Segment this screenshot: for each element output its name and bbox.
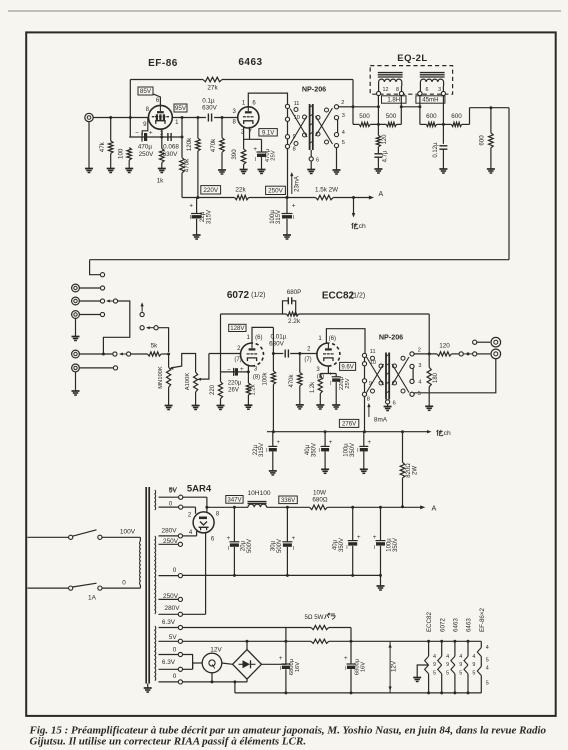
svg-text:220V: 220V <box>203 187 219 194</box>
terminal 5 <box>334 144 338 148</box>
resistor 470k grid leak 6463 <box>221 118 223 138</box>
svg-text:11: 11 <box>294 101 300 107</box>
svg-text:(8): (8) <box>253 375 260 381</box>
terminal 11 <box>285 104 289 108</box>
svg-text:0: 0 <box>122 580 126 587</box>
resistor 470k ECC82 grid <box>299 354 301 373</box>
svg-text:4: 4 <box>433 654 436 660</box>
wire output return <box>414 359 496 393</box>
T2 left winding <box>371 356 375 360</box>
svg-text:I: I <box>330 381 331 387</box>
svg-text:120: 120 <box>439 343 450 350</box>
svg-text:5: 5 <box>459 671 462 677</box>
wire input line <box>93 117 148 119</box>
tap 250V upper <box>159 543 179 545</box>
svg-text:9: 9 <box>459 662 462 668</box>
svg-text:1.8H: 1.8H <box>387 97 400 104</box>
output mid dot <box>467 352 470 355</box>
resistor 390 cathode <box>241 149 246 165</box>
ground T1 pin 6 <box>307 169 315 171</box>
resistor 220 NFB leg <box>220 372 222 382</box>
svg-text:95V: 95V <box>175 105 187 112</box>
capacitor 40u 350V psu <box>352 507 354 540</box>
svg-text:30µ: 30µ <box>270 540 276 551</box>
wire cathode pin3 down <box>161 129 163 148</box>
svg-text:I: I <box>228 546 229 552</box>
svg-text:0.01µ: 0.01µ <box>271 333 287 340</box>
svg-text:6072: 6072 <box>227 290 250 301</box>
svg-text:1.5k 2W: 1.5k 2W <box>315 187 338 194</box>
page top edge line <box>8 10 561 12</box>
resistor 5ohm a <box>311 625 329 629</box>
wire cap to 6463 grid <box>214 117 238 119</box>
ground 220u 25V <box>332 404 340 406</box>
ground 100 ohm <box>125 168 133 170</box>
svg-text:9: 9 <box>446 662 449 668</box>
tube 6072 V3 <box>241 343 253 366</box>
wire pin 9 shield jog <box>142 118 148 136</box>
wire 5V main rail <box>183 640 312 642</box>
ground 4.7u <box>374 168 382 170</box>
switch S1 upper <box>69 535 73 539</box>
T1 right winding <box>325 108 329 112</box>
wire 6072 plate loop <box>252 327 273 343</box>
inductor 1.8H winding <box>379 79 402 86</box>
ground 100u s2 <box>360 468 368 470</box>
svg-text:4: 4 <box>486 645 489 651</box>
svg-text:47k: 47k <box>99 141 106 152</box>
svg-text:315V: 315V <box>275 209 282 224</box>
wire terminal5 to ground <box>336 148 338 170</box>
capacitor 22u 315V <box>196 198 198 214</box>
resistor 22k rail <box>235 195 249 200</box>
wire monitor to junction <box>158 328 168 352</box>
label other-ch <box>351 223 353 229</box>
wire tape out <box>477 341 490 343</box>
contact jack1 <box>100 286 104 290</box>
svg-text:250V: 250V <box>268 188 284 195</box>
svg-text:+: + <box>279 655 283 662</box>
svg-text:1k: 1k <box>157 178 165 185</box>
svg-text:5: 5 <box>446 671 449 677</box>
wire ECC82 plate loop <box>326 329 365 354</box>
svg-text:500V: 500V <box>277 539 283 553</box>
wire terminal6 leg <box>419 96 421 125</box>
bridge diode symbol <box>239 663 243 665</box>
svg-text:+: + <box>329 439 333 446</box>
wire plate row EF-86 <box>172 117 206 119</box>
terminal 10 T2 <box>362 362 366 366</box>
svg-text:3: 3 <box>342 113 345 119</box>
svg-text:EF-86×2: EF-86×2 <box>479 608 486 632</box>
tap 280V lower <box>159 613 179 615</box>
terminal 4 <box>334 133 338 137</box>
wire 6463 plate to transformer <box>248 93 287 107</box>
contact jack5 <box>113 366 117 370</box>
tap 6.3V upper <box>159 627 179 629</box>
wire 5V tap to pin8 <box>179 495 183 499</box>
svg-text:ECC82: ECC82 <box>322 290 355 301</box>
svg-text:5: 5 <box>486 680 489 686</box>
ground psu rail <box>377 585 385 587</box>
svg-text:(1/2): (1/2) <box>251 292 265 299</box>
capacitor 22u 315V s2 <box>272 432 274 447</box>
svg-text:5V: 5V <box>169 634 178 641</box>
ground core <box>144 687 152 689</box>
output contact a <box>459 352 463 356</box>
svg-text:I: I <box>280 666 281 672</box>
ground heater <box>413 677 421 679</box>
tap 0 heater a <box>159 654 179 656</box>
svg-text:Gijutsu. Il utilise un correct: Gijutsu. Il utilise un correcteur RIAA p… <box>30 736 307 748</box>
wire 6.3V lower row <box>183 668 193 670</box>
svg-text:680Ω: 680Ω <box>312 497 328 504</box>
wire lamp left stub <box>192 662 194 669</box>
transformer T1 left rail <box>287 104 289 150</box>
svg-text:4: 4 <box>472 654 475 660</box>
tube 5AR4 <box>193 512 214 533</box>
T2 left rail <box>364 353 366 396</box>
capacitor 0.01u 630V <box>284 350 286 358</box>
wire PSU B+ start <box>207 506 226 508</box>
wire cathode row ECC82 <box>320 373 336 375</box>
terminal 4 T2 <box>410 379 414 383</box>
svg-text:26V: 26V <box>228 388 239 394</box>
T1 core <box>309 104 311 150</box>
svg-text:+: + <box>357 534 361 541</box>
wire EQ row2 <box>420 123 426 125</box>
resistor 500 a <box>359 122 370 126</box>
svg-text:5V: 5V <box>169 488 178 495</box>
svg-text:I: I <box>357 448 358 454</box>
svg-text:120: 120 <box>382 134 388 145</box>
diode bridge <box>233 650 262 680</box>
switch S1 lower / fuse 1A <box>69 586 73 590</box>
svg-text:16V: 16V <box>360 662 366 672</box>
wire terminal 8 down to rail with 23mA <box>287 149 289 198</box>
svg-text:NP-206: NP-206 <box>302 85 326 94</box>
voltage box 85V <box>138 87 153 95</box>
wire jack4 row <box>79 353 112 355</box>
svg-text:+: + <box>292 535 296 542</box>
wire to 5k <box>131 353 148 355</box>
T2 core <box>385 353 387 400</box>
svg-text:100µ: 100µ <box>344 443 350 457</box>
svg-text:6: 6 <box>426 87 429 93</box>
svg-text:5: 5 <box>433 671 436 677</box>
wire jumper T2 3-4 <box>412 368 414 379</box>
wire jack3 <box>79 314 100 316</box>
ground 470k ECC82 <box>296 404 304 406</box>
svg-text:40µ: 40µ <box>333 539 339 550</box>
capacitor 0.068 630V <box>167 133 169 141</box>
selector wiper 2 <box>113 299 117 303</box>
svg-text:1A: 1A <box>88 595 97 602</box>
svg-text:180: 180 <box>433 372 439 383</box>
arrow 23mA <box>291 174 293 194</box>
svg-text:5Ω 5W: 5Ω 5W <box>304 614 323 621</box>
tube ECC82 V4 <box>317 343 329 366</box>
terminal 9 <box>285 135 289 139</box>
heater ECC82 <box>428 641 430 656</box>
choke 10H100 <box>248 501 267 503</box>
svg-text:100µ: 100µ <box>387 538 393 552</box>
wire cathode row EF-86 <box>129 136 182 138</box>
capacitor 100u 350V s2 <box>363 432 365 447</box>
label other-ch 2 <box>436 430 438 436</box>
wire 276V rail <box>267 431 428 433</box>
wire return line to selector <box>90 259 509 261</box>
contact 4a <box>113 352 117 356</box>
resistor 180 shunt <box>428 354 430 367</box>
svg-text:0.12µ: 0.12µ <box>433 142 439 158</box>
svg-text:9: 9 <box>433 662 436 668</box>
svg-text:100V: 100V <box>120 529 136 536</box>
resistor 680 10W <box>310 505 328 510</box>
svg-text:630V: 630V <box>269 341 285 348</box>
resistor 120 eq <box>376 135 380 146</box>
svg-text:+: + <box>329 370 333 377</box>
terminal 6 T2 <box>387 399 389 402</box>
wire jack ground lead <box>88 122 90 169</box>
tape out contact <box>473 340 477 344</box>
svg-text:336V: 336V <box>281 497 296 504</box>
tap 0 HT <box>159 575 179 577</box>
svg-text:5k: 5k <box>151 343 159 350</box>
resistor 100k <box>271 371 276 384</box>
ground phono jacks <box>72 336 80 338</box>
NFB takeoff vertical <box>428 314 430 354</box>
svg-text:500: 500 <box>359 113 370 120</box>
svg-text:MN100K: MN100K <box>158 366 164 389</box>
secondary 5V winding (top) <box>154 490 157 510</box>
wire grid line to 6072 <box>209 353 241 355</box>
lamp 12V pilot <box>193 662 203 664</box>
svg-text:4.7µ: 4.7µ <box>383 150 389 162</box>
wire 5k to pot <box>161 353 169 355</box>
svg-text:8mA: 8mA <box>374 417 388 424</box>
wire terminal12 leg <box>377 96 379 136</box>
svg-text:350V: 350V <box>311 443 317 457</box>
input jack J1 <box>85 113 93 121</box>
svg-text:(1/2): (1/2) <box>351 293 365 300</box>
svg-text:280V: 280V <box>162 528 178 535</box>
svg-text:1.2k: 1.2k <box>251 383 257 395</box>
terminal 6 eq <box>419 86 421 91</box>
svg-text:0: 0 <box>173 646 177 653</box>
svg-text:9.6V: 9.6V <box>341 364 354 371</box>
svg-text:I: I <box>293 546 294 552</box>
svg-text:45mH: 45mH <box>422 97 438 104</box>
svg-text:470k: 470k <box>289 373 295 387</box>
wire wiper2 to lower row <box>103 301 129 354</box>
terminal 8 eq <box>401 86 403 91</box>
wire screen to 85V note <box>153 94 161 106</box>
aux jack 4 <box>72 350 80 358</box>
wire minus rail <box>235 692 481 694</box>
svg-text:4: 4 <box>486 666 489 672</box>
svg-text:630V: 630V <box>202 105 218 112</box>
ground 0.12u <box>439 168 447 170</box>
capacitor 680P loop <box>283 301 289 314</box>
svg-text:9: 9 <box>472 662 475 668</box>
svg-text:27k: 27k <box>207 85 218 92</box>
phono jack 2 <box>72 297 80 305</box>
svg-text:12V: 12V <box>390 660 397 672</box>
svg-text:+: + <box>189 203 193 210</box>
inductor 45mH winding <box>420 79 443 86</box>
EQ-2L dashed box <box>370 66 452 95</box>
svg-text:2: 2 <box>341 100 344 106</box>
svg-text:600: 600 <box>426 113 437 120</box>
ground 1k <box>158 168 166 170</box>
svg-text:16V: 16V <box>295 662 301 672</box>
svg-text:470k: 470k <box>184 158 191 172</box>
ground lower jacks <box>72 390 80 392</box>
wire choke to 336V <box>267 506 310 508</box>
wire bridge bottom stub <box>246 679 248 682</box>
heater 6463 a <box>454 641 456 656</box>
wire T2 output row <box>414 353 437 355</box>
wire psu ground stub <box>380 575 382 586</box>
capacitor 220u 25V ECC82 <box>335 374 337 377</box>
contact circle eq-return <box>100 273 104 277</box>
svg-text:680P: 680P <box>287 289 301 296</box>
svg-text:5: 5 <box>472 671 475 677</box>
resistor 120k plate load <box>197 118 199 139</box>
tap 0 heater b <box>159 681 179 683</box>
svg-text:4: 4 <box>418 379 421 385</box>
secondary HT winding <box>154 536 157 614</box>
wire interstage row <box>273 353 283 355</box>
svg-text:40µ: 40µ <box>305 444 311 455</box>
svg-text:ECC82: ECC82 <box>426 611 433 632</box>
voltage box 9.1V <box>259 129 277 136</box>
svg-text:6463: 6463 <box>453 618 460 632</box>
ground 220 <box>217 405 225 407</box>
svg-text:500: 500 <box>386 113 397 120</box>
terminal 3 <box>334 116 338 120</box>
contact jack3 <box>100 312 104 316</box>
phono jack 1 <box>72 284 80 292</box>
svg-text:10H100: 10H100 <box>247 490 270 497</box>
svg-text:+: + <box>149 130 153 137</box>
tap 0-a wire <box>159 506 179 508</box>
svg-text:5: 5 <box>418 391 421 397</box>
svg-text:250V: 250V <box>163 593 179 600</box>
resistor 2.2k <box>287 312 299 316</box>
primary winding <box>139 541 142 585</box>
tap 5V-a wire <box>159 496 179 498</box>
wire 6072 cathode <box>247 365 249 383</box>
svg-text:A: A <box>432 504 437 513</box>
svg-text:2W: 2W <box>412 466 418 475</box>
wire 0-tap jog <box>183 655 193 670</box>
svg-text:A: A <box>379 191 384 198</box>
svg-text:NP-206: NP-206 <box>379 333 403 342</box>
core ground stub <box>147 684 149 689</box>
terminal 6 T1 <box>310 150 312 157</box>
capacitor 470u 250V cathode <box>141 133 143 142</box>
tape pole contact <box>140 312 144 316</box>
contact jack2 <box>100 299 104 303</box>
voltage box 347V <box>226 496 243 504</box>
wire pin6 to ground <box>310 161 312 170</box>
svg-text:8: 8 <box>367 397 370 403</box>
svg-text:22µ: 22µ <box>253 444 259 455</box>
svg-text:470k: 470k <box>210 138 217 152</box>
ground MN100K <box>165 405 173 407</box>
capacitor 6800u 16V b <box>350 641 352 664</box>
tap 250V lower <box>159 598 179 600</box>
terminal 2 T2 <box>410 352 414 356</box>
svg-text:4: 4 <box>446 654 449 660</box>
resistor 120 output <box>437 352 452 356</box>
svg-text:A100K: A100K <box>185 373 191 391</box>
voltage box 250V <box>266 186 286 194</box>
wire 0 tap to pin2 <box>179 505 183 509</box>
resistor 1.2k 6072 <box>246 383 250 395</box>
svg-text:−: − <box>135 130 139 137</box>
svg-text:315V: 315V <box>259 443 265 457</box>
potentiometer A100K <box>194 372 198 392</box>
monitor contact a <box>140 326 144 330</box>
svg-text:ch: ch <box>444 430 451 437</box>
svg-text:1.2k: 1.2k <box>310 381 316 393</box>
svg-text:10W: 10W <box>313 490 326 497</box>
svg-text:+: + <box>367 439 371 446</box>
resistor 5k <box>148 352 162 356</box>
wire jacks ground lead <box>75 318 77 336</box>
wire cap to ECC82 grid <box>290 353 317 355</box>
phono jack 3 <box>72 311 80 319</box>
svg-text:5: 5 <box>486 657 489 663</box>
ground 600 shunt <box>487 168 495 170</box>
ground input jack <box>85 168 93 170</box>
svg-text:0: 0 <box>173 567 177 574</box>
resistor 27k NFB <box>203 77 222 82</box>
svg-text:500V: 500V <box>247 539 253 553</box>
wire plate-load vertical 100k <box>272 327 274 371</box>
voltage box 128V <box>229 324 246 331</box>
tube 6463 V2 <box>238 107 259 128</box>
svg-text:315V: 315V <box>205 209 212 224</box>
svg-text:9.1V: 9.1V <box>262 131 274 137</box>
box 45mH <box>416 96 445 103</box>
capacitor 20u 500V <box>233 507 235 542</box>
wire 120 to switch <box>452 353 460 355</box>
svg-text:6.3V: 6.3V <box>162 659 176 666</box>
aux jack 5 <box>72 364 80 372</box>
wire under 347V <box>226 506 248 508</box>
svg-text:25V: 25V <box>345 378 351 389</box>
svg-text:I: I <box>345 666 346 672</box>
wire lower jacks ground <box>75 372 77 391</box>
svg-text:128V: 128V <box>230 325 245 332</box>
svg-text:470µ: 470µ <box>138 144 153 151</box>
ground 470k grid leak <box>218 169 226 171</box>
wire EQ row1 <box>353 123 359 125</box>
ground T2 pin6 <box>384 406 392 408</box>
svg-text:I: I <box>319 448 320 454</box>
svg-text:12: 12 <box>383 87 389 93</box>
svg-text:347V: 347V <box>227 497 242 504</box>
wire T2 pin6 ground <box>387 404 389 407</box>
svg-text:I: I <box>266 448 267 454</box>
svg-text:2: 2 <box>418 347 421 353</box>
resistor 600 a <box>426 122 436 126</box>
wire mains upper to primary <box>28 536 69 538</box>
